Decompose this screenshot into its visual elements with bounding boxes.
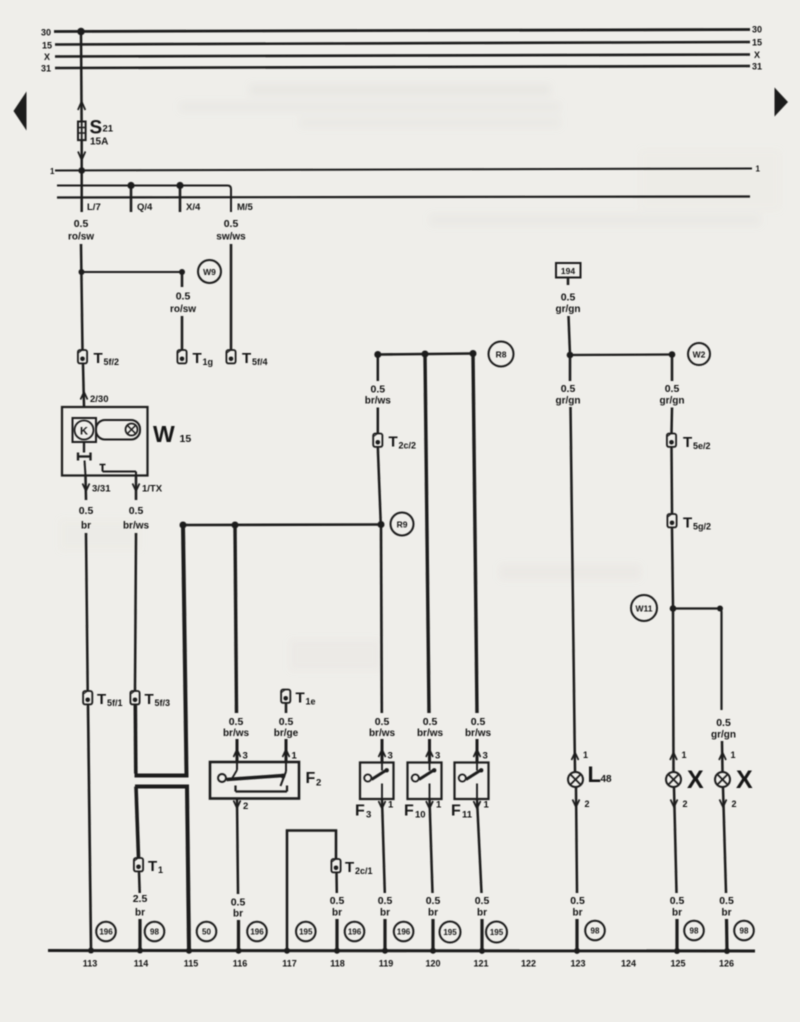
svg-text:0.5: 0.5: [471, 716, 486, 728]
svg-text:br: br: [81, 521, 91, 532]
svg-text:3: 3: [483, 751, 488, 762]
wire T5f/1 to terminal 113: [88, 705, 91, 951]
label T2c/1: [345, 859, 373, 876]
W15 inner contact to pin 1/TX: [100, 465, 137, 476]
svg-text:X: X: [687, 766, 704, 794]
F10 blade end dot: [432, 768, 436, 772]
F3 blade: [372, 770, 387, 780]
svg-text:1: 1: [484, 800, 490, 811]
lamp X pin 2 arrow (126): [720, 800, 727, 808]
bus 31: [55, 66, 750, 68]
ground reference circle 196 (119): [394, 922, 414, 942]
wire stub to F2 pin 1: [285, 739, 288, 762]
door contact switch F11 box: [455, 763, 489, 800]
wire stub terminal 125: [675, 919, 678, 950]
ground track rail: [48, 949, 755, 953]
F11 pin 3 arrow: [474, 750, 481, 758]
wire label 0.5 br column 116: [231, 897, 246, 920]
wire stub to F2 pin 3: [236, 739, 239, 762]
svg-text:gr/gn: gr/gn: [556, 396, 581, 407]
wire label 0.5 br/ge column T1e: [274, 716, 299, 739]
terminal dot 115: [186, 948, 192, 954]
svg-text:L: L: [588, 762, 601, 787]
svg-text:15: 15: [180, 433, 192, 445]
bus X: [55, 55, 750, 57]
svg-text:122: 122: [521, 959, 536, 969]
svg-text:123: 123: [570, 959, 585, 969]
svg-text:15: 15: [42, 41, 52, 51]
wire T5e/2 to T5g/2: [670, 447, 673, 514]
connector T5f/3: [130, 691, 139, 704]
wire bus30 to fuse S21: [80, 32, 83, 122]
lamp L48: [568, 772, 583, 787]
svg-text:98: 98: [690, 927, 699, 936]
wire column 113 to T5f/1: [86, 533, 88, 691]
wire label 0.5 br column 119: [378, 895, 393, 919]
W15 heater element: [78, 442, 91, 476]
svg-text:1/TX: 1/TX: [142, 484, 163, 495]
wire M/5 down to T5f/4: [230, 244, 233, 350]
wire L48 to terminal 123: [576, 787, 577, 893]
F3 pin 1 arrow: [379, 801, 386, 809]
svg-text:W9: W9: [203, 267, 216, 277]
svg-text:120: 120: [425, 959, 440, 969]
svg-text:5e/2: 5e/2: [693, 441, 711, 451]
svg-text:2: 2: [316, 778, 321, 789]
wire stub terminal 118: [335, 919, 338, 950]
feeder line with corner to M/5: [57, 186, 231, 213]
node R8 horizontal wire: [378, 354, 473, 355]
wire label 0.5 br column 123: [570, 895, 585, 919]
svg-text:2: 2: [683, 799, 688, 809]
rail y197: [57, 197, 750, 198]
terminal dot 114: [137, 948, 143, 954]
W15 lamp capsule: [96, 420, 140, 440]
svg-text:sw/ws: sw/ws: [216, 232, 246, 243]
connector T1e: [281, 690, 290, 703]
connector T5e/2: [667, 434, 676, 447]
svg-text:0.5: 0.5: [561, 292, 576, 304]
svg-text:124: 124: [621, 959, 636, 969]
node R9 horizontal wire: [183, 523, 381, 526]
F10 blade: [419, 770, 434, 780]
svg-text:5g/2: 5g/2: [693, 522, 711, 532]
svg-text:ro/sw: ro/sw: [170, 304, 196, 315]
ground reference circle 195 (120): [440, 922, 461, 943]
F11 top inner stub: [476, 763, 478, 771]
wire column 120 R8 to F10: [425, 354, 429, 713]
wire label 0.5 br column 126: [719, 895, 734, 919]
track numbers: [83, 959, 734, 969]
wire stub below R8: [377, 355, 380, 382]
label S21 15A: [90, 118, 114, 148]
F3 blade end dot: [385, 768, 389, 772]
svg-text:117: 117: [282, 959, 297, 969]
svg-text:br: br: [380, 908, 390, 919]
wire stub terminal 121: [480, 919, 483, 950]
svg-text:T: T: [683, 434, 692, 451]
svg-text:0.5: 0.5: [670, 895, 685, 907]
wire label 0.5 gr/gn column 126: [711, 717, 736, 741]
svg-text:0.5: 0.5: [176, 291, 191, 303]
wire stub below W2 junction left: [569, 355, 572, 381]
ground reference circle 196 (113): [96, 922, 116, 942]
wire label 0.5 br/ws column 119: [369, 716, 396, 739]
svg-text:2: 2: [243, 801, 248, 812]
wire F2 pin 2 down: [237, 799, 238, 895]
junction dot R8 right: [470, 350, 477, 357]
svg-text:11: 11: [462, 810, 473, 821]
wire column 119 R9 to F3: [380, 525, 383, 713]
terminal dot 125: [674, 948, 680, 954]
svg-text:br: br: [428, 908, 438, 919]
connector T1g: [177, 350, 186, 363]
F10 top inner stub: [429, 763, 431, 771]
svg-text:1: 1: [158, 865, 163, 875]
svg-text:0.5: 0.5: [375, 716, 390, 728]
svg-text:98: 98: [591, 927, 600, 936]
label T1: [148, 858, 163, 875]
ground reference circle 195 (121): [486, 922, 507, 943]
svg-text:0.5: 0.5: [74, 218, 89, 230]
ground reference circle 98 (125): [684, 921, 704, 941]
photocopy smudge band top: [60, 85, 780, 670]
svg-text:T: T: [94, 350, 103, 367]
svg-text:gr/gn: gr/gn: [556, 304, 581, 315]
wire T1g down: [181, 316, 184, 350]
wire stub terminal 116: [237, 920, 240, 950]
wire lamp X to terminal 126: [723, 787, 726, 893]
lamp X (125): [666, 772, 681, 787]
svg-text:br/ge: br/ge: [274, 728, 299, 739]
svg-text:0.5: 0.5: [129, 505, 144, 517]
svg-text:2/30: 2/30: [90, 394, 109, 405]
wire F3 to terminal 119: [382, 799, 385, 893]
label T5g/2: [683, 515, 711, 532]
wire column 123 down to lamp L48: [571, 407, 576, 772]
svg-text:T: T: [345, 859, 354, 876]
terminal dot 123: [574, 948, 580, 954]
junction dot R8 mid: [422, 351, 429, 358]
terminal dot 126: [724, 948, 730, 954]
svg-text:F: F: [355, 803, 365, 820]
label T2c/2: [389, 434, 417, 451]
arrowhead down to line 1: [78, 152, 85, 161]
wire branch to T1g: [82, 271, 183, 273]
junction on bus 30: [77, 28, 85, 36]
wire column 121 R8 to F11: [473, 354, 477, 714]
svg-text:1: 1: [50, 167, 55, 176]
terminal dot 120: [430, 948, 436, 954]
svg-text:5f/4: 5f/4: [252, 357, 268, 367]
F11 pivot circle: [459, 774, 466, 781]
svg-text:X: X: [44, 52, 50, 62]
svg-text:0.5: 0.5: [279, 716, 294, 728]
wire label 0.5 br column 120: [426, 895, 441, 919]
wire label 0.5 ro/sw column L/7: [68, 218, 94, 243]
F2 blade end dot: [281, 774, 286, 779]
F10 pin 1 arrow: [426, 801, 433, 809]
svg-text:114: 114: [134, 959, 149, 969]
F11 blade end dot: [479, 768, 483, 772]
svg-text:br/ws: br/ws: [417, 728, 444, 739]
svg-text:15: 15: [752, 38, 762, 48]
node W11 horizontal wire: [673, 609, 722, 711]
wire label 0.5 br column 121: [475, 895, 490, 919]
svg-text:T: T: [193, 350, 202, 367]
F2 pin 2 arrow: [234, 801, 241, 809]
junction node on line 1: [78, 167, 85, 174]
label T1e: [296, 690, 316, 707]
wire reference 194 box: [556, 263, 581, 278]
door contact switch F10 box: [408, 763, 442, 800]
connector T2c/1: [331, 859, 340, 872]
thick wire column 115 upper: [183, 525, 187, 776]
svg-text:126: 126: [719, 959, 734, 969]
svg-text:0.5: 0.5: [229, 716, 244, 728]
junction dot R9 mid: [232, 522, 239, 529]
wire T2c/1 down: [335, 873, 338, 894]
wire T5g/2 to W11 junction: [672, 527, 673, 608]
lamp X pin 1 arrow (125): [670, 753, 677, 761]
F10 bottom inner stub: [429, 784, 431, 800]
F2 pin 1 inner stub: [281, 762, 287, 786]
svg-text:br: br: [573, 908, 583, 919]
lamp X (126): [715, 772, 730, 787]
wire T2c/2 to R9 junction: [378, 447, 381, 525]
svg-text:3: 3: [366, 810, 371, 821]
svg-text:br: br: [672, 908, 682, 919]
svg-text:M/5: M/5: [237, 202, 254, 213]
svg-text:115: 115: [184, 959, 199, 969]
svg-text:195: 195: [299, 928, 313, 937]
wire stub terminal 126: [725, 919, 729, 950]
splice bar lower: [135, 785, 189, 789]
wire label 0.5 br column 125: [670, 895, 685, 919]
junction dot W11 corner: [717, 606, 723, 612]
F3 bottom inner stub: [381, 784, 383, 800]
lamp X pin 1 arrow (126): [719, 753, 726, 761]
door contact switch F2 box: [210, 762, 299, 799]
pin 3/31 arrow: [83, 484, 90, 492]
svg-text:125: 125: [670, 959, 685, 969]
F3 pivot circle: [364, 774, 371, 781]
label T5f/1: [97, 691, 123, 708]
wire label 0.5 br column 113: [79, 505, 94, 532]
svg-text:br: br: [477, 908, 487, 919]
label L48: [588, 762, 613, 787]
svg-text:48: 48: [601, 774, 613, 785]
svg-text:0.5: 0.5: [426, 895, 441, 907]
lamp X pin 2 arrow (125): [671, 800, 678, 808]
wire L/7 down to T5f/2: [81, 244, 83, 350]
wire label 0.5 sw/ws column M/5: [216, 218, 246, 243]
pin 3/31 wire stub: [84, 476, 87, 501]
svg-text:2: 2: [732, 799, 737, 809]
svg-text:K: K: [80, 426, 88, 438]
svg-text:0.5: 0.5: [330, 895, 345, 907]
junction dot R9 left: [180, 522, 187, 529]
door contact switch F3 box: [360, 763, 394, 800]
wire to T5e/2: [670, 408, 673, 434]
F3 top inner stub: [381, 763, 383, 771]
svg-text:br/ws: br/ws: [369, 728, 396, 739]
thick wire column 115 lower: [187, 787, 189, 951]
wire T5f/3 to splice: [134, 705, 138, 774]
svg-text:gr/gn: gr/gn: [711, 730, 736, 741]
wire label 0.5 br/ws column 114: [123, 505, 150, 532]
wire stub terminal 123: [575, 919, 578, 950]
wire stub to lamp X (126): [721, 741, 724, 772]
label T5f/4: [242, 350, 268, 367]
svg-text:X: X: [754, 50, 760, 60]
junction dot Q/4: [127, 182, 134, 189]
svg-text:T: T: [145, 691, 154, 708]
wire stub terminal 120: [431, 919, 434, 950]
svg-text:br: br: [722, 908, 732, 919]
svg-text:br/ws: br/ws: [365, 396, 392, 407]
label T5f/2: [94, 350, 120, 367]
svg-text:br/ws: br/ws: [123, 521, 150, 532]
label F3: [355, 803, 371, 821]
terminal dot 113: [88, 948, 94, 954]
ground reference circle 195 (117): [296, 922, 316, 942]
F2 switch blade: [227, 776, 284, 780]
node W11 circle: [631, 595, 657, 621]
wire T5f/2 to W15 pin 2/30: [83, 364, 84, 408]
svg-text:F: F: [306, 770, 316, 787]
svg-text:F: F: [451, 803, 461, 820]
wire stub below 194: [567, 278, 570, 286]
terminal dot 118: [334, 948, 340, 954]
F10 pivot circle: [412, 774, 419, 781]
svg-text:98: 98: [150, 928, 159, 937]
wire stub to F10 pin 3: [428, 739, 431, 762]
terminal dot 119: [382, 948, 388, 954]
loop wire 117-118 top bar: [287, 831, 336, 951]
svg-text:119: 119: [379, 959, 394, 969]
wire stub terminal 114: [138, 919, 141, 950]
svg-text:T: T: [683, 515, 692, 532]
terminal dot 116: [236, 948, 242, 954]
svg-text:1g: 1g: [203, 357, 214, 367]
svg-text:T: T: [242, 350, 251, 367]
svg-text:br/ws: br/ws: [465, 728, 492, 739]
wire label 0.5 br/ws column 121: [465, 716, 492, 739]
F2 lower contact bar: [236, 786, 288, 792]
wire T1e down: [285, 703, 288, 713]
svg-text:30: 30: [41, 28, 51, 38]
wire label 0.5 br column 118: [330, 895, 345, 919]
svg-text:gr/gn: gr/gn: [660, 396, 685, 407]
wire label 0.5 br/ws column 120: [417, 716, 444, 739]
svg-text:196: 196: [397, 928, 411, 937]
terminal dot 121: [479, 948, 485, 954]
node W2 horizontal wire: [570, 353, 672, 356]
svg-text:X: X: [736, 766, 753, 794]
svg-text:2: 2: [585, 799, 590, 809]
svg-text:0.5: 0.5: [423, 716, 438, 728]
junction dot W2 left: [567, 352, 574, 359]
svg-text:31: 31: [752, 62, 762, 72]
svg-text:21: 21: [103, 124, 114, 135]
svg-text:0.5: 0.5: [561, 383, 576, 395]
svg-text:30: 30: [752, 25, 762, 35]
F2 pin 3 inner stub: [232, 762, 237, 779]
svg-text:0.5: 0.5: [378, 895, 393, 907]
wire stub to F11 pin 3: [476, 739, 479, 762]
W15 K circle: [75, 421, 94, 440]
junction to T1g branch: [79, 269, 85, 275]
svg-text:1: 1: [388, 800, 394, 811]
wire stub terminal 119: [383, 919, 386, 950]
svg-text:0.5: 0.5: [231, 897, 246, 909]
svg-text:W11: W11: [635, 604, 652, 614]
svg-text:0.5: 0.5: [475, 895, 490, 907]
wire label 0.5 br/ws column T2c/2: [365, 384, 392, 407]
svg-text:br/ws: br/ws: [223, 728, 250, 739]
ground reference circle 98 (114): [145, 922, 165, 942]
F2 switch pivot circle: [218, 774, 226, 782]
wire 194 down to W2 junction: [569, 316, 571, 355]
L48 pin 1 arrow: [572, 753, 579, 761]
F11 blade: [466, 770, 481, 780]
line 1: [55, 169, 752, 171]
node W9: [198, 260, 221, 283]
svg-text:2.5: 2.5: [133, 893, 148, 905]
label T5e/2: [683, 434, 711, 451]
svg-text:121: 121: [473, 959, 488, 969]
svg-text:1: 1: [682, 750, 687, 760]
svg-text:1e: 1e: [306, 697, 316, 707]
junction dot R9 right: [378, 521, 385, 528]
ground reference circle 50 (115): [197, 922, 217, 942]
wire lamp X to terminal 125: [674, 787, 677, 893]
wire to T2c/2: [377, 408, 380, 434]
svg-text:ro/sw: ro/sw: [68, 232, 94, 243]
svg-text:5f/3: 5f/3: [155, 698, 171, 708]
node dot T1g branch end: [179, 269, 185, 275]
svg-text:195: 195: [443, 928, 457, 937]
svg-text:Q/4: Q/4: [137, 202, 153, 213]
wire column 125 down to lamp X: [672, 609, 675, 773]
F11 pin 1 arrow: [474, 801, 481, 809]
connector T5f/1: [83, 691, 92, 704]
svg-text:1: 1: [756, 165, 761, 174]
svg-text:196: 196: [99, 928, 113, 937]
svg-text:31: 31: [41, 64, 51, 74]
terminal dot 117: [284, 948, 290, 954]
wire fuse to node line 1: [80, 141, 83, 171]
wire T1 down: [138, 872, 141, 894]
node R9 circle: [391, 513, 414, 536]
svg-text:0.5: 0.5: [370, 384, 385, 396]
wire label 0.5 gr/gn column 125: [660, 383, 685, 407]
svg-text:W2: W2: [693, 350, 706, 360]
svg-text:1: 1: [731, 750, 736, 760]
svg-text:0.5: 0.5: [719, 895, 734, 907]
svg-text:br: br: [332, 908, 342, 919]
svg-text:3: 3: [243, 751, 248, 762]
arrowhead up into fuse: [78, 102, 85, 111]
wire splice to T1: [136, 787, 139, 859]
svg-text:196: 196: [348, 928, 362, 937]
svg-text:T: T: [296, 690, 305, 707]
W15 K element square: [73, 418, 97, 442]
wire label 0.5 gr/gn column 194: [556, 292, 581, 316]
svg-text:10: 10: [415, 810, 426, 821]
svg-text:194: 194: [561, 266, 575, 276]
